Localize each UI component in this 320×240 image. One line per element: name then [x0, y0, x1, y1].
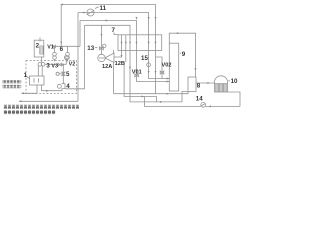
valve 5 — [56, 72, 59, 75]
svg-text:4: 4 — [66, 83, 70, 90]
arrows — [19, 4, 211, 108]
valve V2 — [64, 56, 68, 60]
box 2 element — [40, 46, 43, 54]
annotation leader — [22, 85, 38, 94]
wire pump14 feed — [145, 97, 201, 107]
bottom caption line 2 — [3, 110, 56, 114]
tiny chinese annotation left of box 1 — [2, 80, 21, 83]
motor 4 — [57, 84, 61, 88]
instrument 15 — [147, 63, 151, 67]
svg-text:11: 11 — [100, 5, 107, 12]
svg-text:7: 7 — [112, 27, 116, 34]
label 1 leader — [27, 77, 30, 79]
svg-text:3: 3 — [46, 63, 50, 70]
wire riser left — [60, 5, 62, 47]
wire pump6 feeds — [55, 46, 68, 61]
wire y93.7 under 9 — [114, 92, 188, 94]
svg-text:V02: V02 — [162, 63, 172, 69]
blower 12B cone — [105, 53, 114, 63]
wire valve13 drop — [101, 25, 103, 54]
svg-text:9: 9 — [182, 51, 186, 58]
pump 3 — [38, 63, 42, 67]
wire V1 valve run — [55, 21, 80, 47]
label 11 leader — [95, 7, 99, 9]
svg-text:V01: V01 — [132, 70, 142, 76]
wire riser x78 — [77, 13, 79, 102]
wire box2 stub top — [39, 38, 41, 42]
wire riser x84.6 — [84, 25, 86, 89]
component number labels — [24, 5, 238, 103]
wire box1 to comp4 — [42, 85, 62, 91]
svg-text:10: 10 — [231, 78, 238, 85]
vessel 10 hatch — [216, 84, 226, 92]
wire 8 to vessel 10 — [196, 82, 215, 84]
bottom caption line 1 — [3, 105, 79, 109]
wire x113.6 — [113, 63, 115, 94]
svg-text:15: 15 — [141, 55, 148, 62]
valve 13 — [95, 47, 98, 49]
svg-text:6: 6 — [60, 46, 64, 53]
wire box2 to pump3 — [41, 57, 43, 63]
box 2 — [34, 40, 44, 57]
svg-text:5: 5 — [66, 71, 70, 78]
vessel 10 body — [215, 84, 228, 92]
wire drop x121.5 — [114, 35, 122, 57]
wire comp4 out — [65, 88, 84, 90]
box 1 electrolyzer — [30, 76, 45, 85]
pump 6 left — [53, 52, 57, 56]
vessel 10 dome — [215, 76, 228, 84]
label 9 dash — [180, 52, 181, 54]
svg-text:14: 14 — [196, 96, 203, 103]
svg-text:12B: 12B — [115, 61, 125, 67]
pump 6 right — [66, 52, 70, 56]
wire exhaust bottom — [19, 100, 78, 102]
svg-text:8: 8 — [197, 83, 201, 90]
wire V02 branch — [156, 35, 163, 94]
svg-text:13: 13 — [87, 45, 94, 52]
fan 11 — [87, 9, 94, 16]
valve V01 — [135, 74, 139, 77]
pump 14 — [201, 102, 206, 107]
box 7 manifold — [118, 35, 162, 51]
wire pump3 run — [45, 63, 58, 65]
box 8 — [188, 77, 196, 92]
wire top line A — [61, 5, 155, 35]
wire blower duct — [113, 50, 115, 53]
wire valve5 drop — [62, 65, 64, 84]
svg-text:12A: 12A — [102, 64, 112, 70]
valve V3 — [58, 63, 61, 66]
label 10 dash — [228, 80, 230, 82]
wire 9 top to 8 — [169, 33, 195, 77]
wire box1 stubs — [38, 66, 42, 76]
wire drop x136.5 V01 — [137, 35, 170, 82]
wire line C — [80, 21, 137, 35]
wire vessel out right — [228, 92, 241, 106]
blower 12A — [98, 54, 105, 61]
wire drop x125.8 — [125, 35, 127, 62]
svg-text:V3: V3 — [51, 64, 58, 70]
valve V1 — [53, 45, 56, 47]
wire drop x130 low — [130, 35, 188, 102]
wire drop x149.5 — [149, 35, 170, 79]
svg-text:V2: V2 — [69, 62, 76, 68]
svg-text:V1: V1 — [47, 45, 54, 51]
valve V02 — [160, 71, 164, 74]
wire V3 to V2 riser — [62, 59, 67, 64]
wire bottom to pump14 — [206, 105, 240, 107]
wire line D — [85, 25, 130, 35]
svg-text:1: 1 — [24, 72, 28, 79]
dashed enclosure — [26, 61, 77, 94]
svg-text:2: 2 — [36, 43, 40, 50]
wire fan line B — [78, 13, 149, 35]
label 7 leader — [114, 33, 118, 35]
column 9 — [169, 43, 178, 91]
wire x124 bottom — [124, 62, 156, 102]
